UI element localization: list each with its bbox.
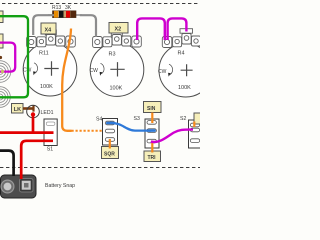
svg-text:LK: LK [14, 107, 21, 113]
svg-text:Battery Snap: Battery Snap [45, 183, 75, 189]
potentiometer R11 cross [44, 61, 58, 75]
potentiometer R3 cross [110, 62, 124, 76]
svg-text:CW: CW [90, 68, 99, 74]
svg-text:100K: 100K [40, 84, 53, 90]
resistor R13 leads [48, 14, 82, 16]
svg-text:R4: R4 [178, 51, 185, 57]
LED1 lit dot [31, 112, 35, 116]
wire magenta (R3 right lug to R4 left lug) [137, 18, 165, 40]
svg-text:SIN: SIN [147, 106, 156, 112]
svg-text:X2: X2 [115, 27, 122, 33]
potentiometer R4 cross [181, 64, 193, 76]
svg-text:LED1: LED1 [41, 110, 54, 116]
wire red (left edge to S1) [0, 131, 54, 134]
wire black (battery ground) [0, 151, 14, 176]
label box TRI [144, 151, 161, 162]
wire red (LED1 to red bus) [32, 114, 35, 132]
switch S3 box [145, 119, 159, 148]
potentiometer R11 body [23, 42, 77, 96]
svg-text:TRI: TRI [148, 155, 157, 161]
potentiometer R11 hardware [27, 30, 76, 48]
switch S4 slots [105, 121, 114, 141]
wire orange dashed (to S4) [72, 130, 103, 132]
switch S1 top slot [46, 122, 55, 125]
blue terminal in S4 slot [106, 122, 114, 125]
wire magenta (R4 left lug to R4 tab) [168, 18, 187, 40]
svg-text:R11: R11 [39, 51, 49, 57]
LED1 body [27, 105, 40, 118]
solder dot [0, 56, 2, 59]
wire orange (S3 bottom to TRI) [151, 141, 153, 153]
potentiometer R3 CW arrow [90, 63, 105, 75]
battery snap body [1, 175, 37, 198]
potentiometer R4 body [159, 43, 213, 97]
label box SIN [144, 102, 162, 113]
battery snap square terminal [20, 179, 34, 193]
svg-text:S4: S4 [96, 117, 102, 123]
svg-text:SQR: SQR [104, 152, 115, 158]
top dashed boundary [2, 3, 200, 5]
label box LK [12, 104, 24, 114]
link lead to LED [23, 107, 34, 110]
connector pad P1 (left edge, green output) [0, 11, 3, 23]
svg-text:100K: 100K [110, 86, 123, 92]
potentiometer R3 hardware [93, 31, 142, 48]
label box X4 [41, 23, 56, 34]
switch S1 box [44, 119, 57, 146]
label box SQR [102, 147, 119, 159]
wire orange (SIN to S3 top) [151, 113, 153, 124]
label box X2 [109, 23, 128, 34]
wire magenta (pad P2 to speaker J1) [0, 43, 15, 72]
label box above S2 (cut) [194, 113, 206, 124]
wire green (pad P1 to speaker J2 via R11 left lug) [0, 16, 28, 97]
wire gray (R13 left to R11 lug) [33, 15, 54, 35]
svg-text:100K: 100K [178, 85, 191, 91]
wire red (battery to S1) [21, 141, 53, 179]
svg-text:R3: R3 [109, 52, 116, 58]
wire orange (S2 label box) [193, 122, 195, 128]
switch S3 slots [147, 121, 156, 143]
svg-text:S3: S3 [134, 116, 140, 122]
wire blue (S4 top to S3 middle) [110, 123, 151, 131]
switch S2 box [189, 120, 204, 148]
potentiometer R4 CW arrow [158, 64, 173, 76]
svg-text:S2: S2 [180, 116, 186, 122]
wire magenta (S3 bottom to S2 middle) [151, 130, 193, 142]
svg-text:3K: 3K [65, 5, 72, 11]
resistor R13 body [53, 11, 77, 18]
wire terminal dot J1 [1, 70, 4, 73]
svg-text:CW: CW [158, 69, 167, 75]
battery snap round terminal [1, 180, 14, 193]
wire gray (R13 right to R3 lug) [80, 15, 96, 37]
potentiometer R4 hardware [162, 29, 211, 48]
svg-text:S1: S1 [47, 147, 53, 153]
switch S2 slots [190, 123, 199, 142]
switch S4 box [103, 119, 118, 146]
speaker J1 (concentric rings, cut at left edge) [0, 61, 11, 83]
svg-text:X4: X4 [45, 28, 53, 34]
bottom dashed boundary [0, 167, 200, 169]
wire orange (R11 wiper down to S4 row) [62, 29, 71, 131]
potentiometer R3 body [90, 43, 144, 97]
connector pad P2 (left edge, magenta output) [0, 34, 3, 48]
blue terminal in S3 slot [148, 129, 156, 132]
svg-text:R13: R13 [52, 5, 61, 11]
wire orange (S4 bottom to SQR) [109, 139, 111, 149]
potentiometer R11 CW arrow [23, 63, 38, 75]
speaker J2 (concentric rings, cut at left edge) [0, 87, 10, 108]
